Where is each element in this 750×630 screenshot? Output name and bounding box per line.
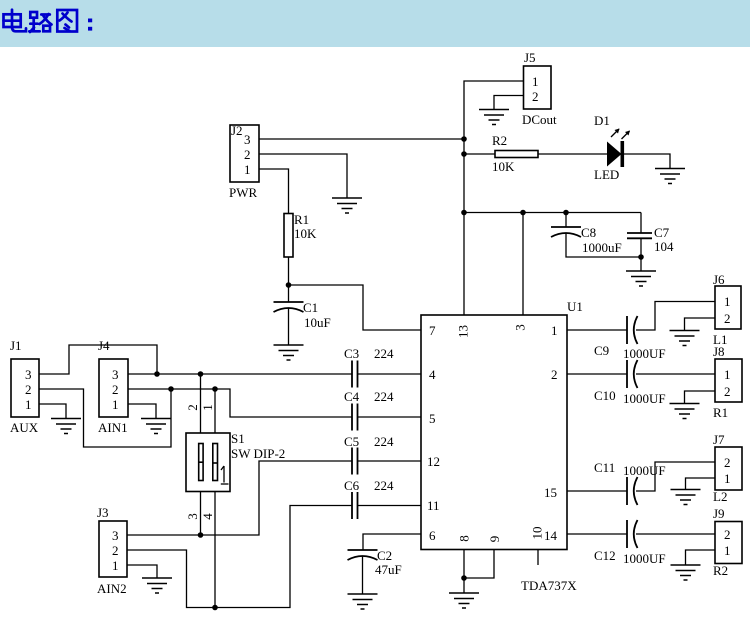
connector J6 [713,272,741,347]
svg-text:R1: R1 [713,405,728,420]
svg-text:3: 3 [244,132,251,147]
svg-text:224: 224 [374,434,394,449]
node S1.4 join [212,605,218,611]
node pin8/pin9 [461,575,467,581]
svg-text:AIN1: AIN1 [98,420,128,435]
svg-text:R1: R1 [294,212,309,227]
wire C7 to ground [640,238,642,271]
wire node to U1 pin7 [289,285,422,330]
capacitor C2 [348,548,402,577]
svg-text:J3: J3 [97,505,109,520]
svg-text:C3: C3 [344,346,359,361]
node R2 junction [461,151,467,157]
svg-text:1000UF: 1000UF [623,391,666,406]
wire U1 pin10 stub [537,550,539,566]
svg-text:1: 1 [25,397,32,412]
svg-text:3: 3 [185,513,200,520]
wire J5 pin1 down to U1 pin13 [464,81,524,315]
svg-text:TDA737X: TDA737X [521,578,577,593]
svg-text:1: 1 [200,404,215,411]
node bus left [461,210,467,216]
wire C3 to U1 pin4 [358,373,422,375]
wire U1 pin2 to C10 [567,373,627,375]
svg-text:4: 4 [200,513,215,520]
ground J6 [670,331,700,346]
svg-text:8: 8 [457,535,472,542]
node S1.3 join [198,532,204,538]
svg-text:C2: C2 [377,548,392,563]
wire AIN1 pin2 net to C4 [128,389,352,417]
svg-text:D1: D1 [594,113,610,128]
diode D1 LED [594,113,630,182]
ground C7 [626,271,656,286]
wire C8 bottom [566,233,641,257]
svg-text:2: 2 [724,455,731,470]
node C8 branch [563,210,569,216]
svg-text:1000uF: 1000uF [582,240,622,255]
svg-text:C9: C9 [594,343,609,358]
svg-text:2: 2 [724,311,731,326]
svg-text:C8: C8 [581,225,596,240]
wire U1 pin1 to C9 [567,329,627,331]
svg-text:4: 4 [429,367,436,382]
svg-text:7: 7 [429,323,436,338]
node C8/C7 junction [638,254,644,260]
capacitor C7 [627,225,674,254]
connector J7 [713,432,742,504]
svg-text:5: 5 [429,411,436,426]
ground C2 [348,594,378,609]
wire S1 pin1 stub [214,389,216,433]
wire J4 pin1 [128,404,156,419]
svg-text:2: 2 [25,382,32,397]
wire C6 to U1 pin11 [358,505,422,507]
node S1 pin2 join [198,371,204,377]
title banner [0,0,750,47]
svg-text:1: 1 [244,162,251,177]
svg-text:J9: J9 [713,506,725,521]
svg-text:13: 13 [456,325,471,338]
wire J7 pin1 to ground [686,478,716,490]
wire C4 to U1 pin5 [358,416,422,418]
svg-text:1: 1 [112,397,119,412]
svg-text:C1: C1 [303,300,318,315]
wire bus to C7 [640,213,642,234]
wire S1 pin2 stub [200,374,202,433]
ground J7 [671,490,701,505]
svg-text:9: 9 [487,536,502,543]
svg-text:15: 15 [544,485,557,500]
connector J9 [713,506,742,578]
svg-text:1000UF: 1000UF [623,346,666,361]
capacitor C1 [274,300,331,330]
svg-text:1: 1 [724,471,731,486]
node J1.2 join [168,386,174,392]
svg-text:J8: J8 [713,344,725,359]
wire U1 pin8 stub [463,550,465,594]
svg-text:R2: R2 [492,133,507,148]
capacitor C6 [344,478,394,519]
wire U1 pin14 to C12 [567,533,627,535]
svg-text:14: 14 [544,528,558,543]
svg-text:SW DIP-2: SW DIP-2 [231,446,285,461]
svg-text:AIN2: AIN2 [97,581,127,596]
wire R2 to LED [538,153,607,155]
wire C1 to ground [288,308,290,345]
capacitor C9 [594,316,666,361]
svg-text:2: 2 [724,527,731,542]
wire LED to ground [624,154,670,169]
svg-text:3: 3 [112,367,119,382]
svg-text:AUX: AUX [10,420,39,435]
capacitor C3 [344,346,394,388]
wire J2 pin1 to R1 [259,169,289,214]
svg-text:1: 1 [724,543,731,558]
wire U1 pin9 stub [464,550,494,579]
svg-text:2: 2 [724,384,731,399]
svg-text:11: 11 [427,498,440,513]
svg-text:J7: J7 [713,432,725,447]
svg-text:C10: C10 [594,388,616,403]
svg-text:C4: C4 [344,389,360,404]
node R1/C1 [286,282,292,288]
wire C9 to J6 pin1 [636,302,715,331]
ground J8 [670,404,700,419]
svg-text:S1: S1 [231,431,245,446]
wire C5 to U1 pin12 [358,460,422,462]
wire S1 pin3 stub [200,492,202,536]
wire bus to U1 pin3 [522,213,524,316]
svg-text:R2: R2 [713,563,728,578]
svg-text:1: 1 [724,367,731,382]
capacitor C12 [594,520,666,566]
svg-text:L2: L2 [713,489,727,504]
capacitor C10 [594,360,666,406]
wire J1 pin3 over to AIN1 net [39,345,157,374]
svg-text:2: 2 [244,147,251,162]
capacitor C5 [344,434,394,475]
wire J3 pin2 net bottom run to C6 [127,506,352,608]
wire to R2 [464,153,495,155]
svg-text:U1: U1 [567,299,583,314]
svg-text:224: 224 [374,346,394,361]
wire C2 to ground [362,556,364,594]
svg-text:J5: J5 [524,50,536,65]
switch S1 SW DIP-2 [186,431,285,492]
svg-text:DCout: DCout [522,112,557,127]
svg-text:3: 3 [112,528,119,543]
svg-text:47uF: 47uF [375,562,402,577]
resistor R2 [492,133,538,174]
wire J2 pin3 to node [259,138,464,140]
wire J5 pin2 to ground [494,96,524,110]
svg-text:2: 2 [532,89,539,104]
ground J2 pin2 [332,198,362,213]
wire J1 pin2 under to AIN1 pin2 net [39,389,171,447]
op-amp IC U1 TDA737X [421,299,583,593]
svg-text:LED: LED [594,167,619,182]
ground J4 [141,419,171,434]
svg-text:3: 3 [513,324,528,331]
wire U1 pin15 to C11 [567,490,627,492]
wire AIN1 pin3 net to C3 [128,373,352,375]
wire J3 pin3 net to C5 [127,461,352,535]
wire C10 to J8 pin1 [636,373,715,375]
svg-text:1000UF: 1000UF [623,551,666,566]
svg-text:2: 2 [112,382,119,397]
svg-text:1: 1 [551,323,558,338]
svg-text:2: 2 [185,404,200,411]
connector J5 [522,50,557,127]
ground J3 [142,578,172,593]
node U1 pin3 branch [520,210,526,216]
svg-text:6: 6 [429,528,436,543]
wire J6 pin2 to ground [685,318,716,331]
wire J8 pin2 to ground [685,391,716,404]
svg-text:3: 3 [25,367,32,382]
svg-text:104: 104 [654,239,674,254]
ground U1 pins 8,9 [449,593,479,608]
svg-text:10K: 10K [294,226,317,241]
ground LED [655,169,685,184]
ground J9 [671,565,701,580]
svg-text:1: 1 [532,74,539,89]
wire C11 to J7 pin2 [636,462,715,491]
svg-text:J6: J6 [713,272,725,287]
ground J5 [479,110,509,125]
connector J1 [10,338,39,435]
svg-text:C12: C12 [594,548,616,563]
node S1 pin1 join [212,386,218,392]
svg-text:C6: C6 [344,478,360,493]
ground C1 [274,345,304,360]
connector J2 [229,123,259,200]
wire J2 pin2 [259,154,347,198]
wire J9 pin1 to ground [686,550,716,565]
svg-text:C5: C5 [344,434,359,449]
wire U1 pin6 to C2 [363,534,421,550]
connector J8 [713,344,742,420]
wire J1 pin1 [39,404,66,419]
svg-text:12: 12 [427,454,440,469]
svg-text:224: 224 [374,389,394,404]
title text 电路图: (drawn glyphs) [4,10,93,32]
wire J3 pin1 [127,565,157,578]
connector J4 [98,338,128,435]
svg-text:1: 1 [724,294,731,309]
svg-text:2: 2 [551,367,558,382]
wire bus to C8 [565,213,567,228]
svg-text:1: 1 [112,558,119,573]
wire power bus [464,212,641,214]
ground J1 [51,419,81,434]
svg-text:10K: 10K [492,159,515,174]
capacitor C11 [594,460,666,505]
wire S1 pin4 stub down to bottom net [214,492,216,608]
svg-text:1000UF: 1000UF [623,463,666,478]
connector J3 [97,505,127,596]
node J1.3 join [154,371,160,377]
svg-text:PWR: PWR [229,185,258,200]
svg-text:10uF: 10uF [304,315,331,330]
wire C12 to J9 pin2 [636,533,715,535]
svg-text:J1: J1 [10,338,22,353]
svg-text:10: 10 [530,527,545,540]
svg-text:J2: J2 [231,123,243,138]
svg-text:C11: C11 [594,460,615,475]
capacitor C8 [551,225,622,255]
svg-text:224: 224 [374,478,394,493]
node J2.3 junction [461,136,467,142]
resistor R1 [284,212,317,257]
svg-text:2: 2 [112,543,119,558]
svg-text:C7: C7 [654,225,670,240]
capacitor C4 [344,389,394,431]
wire R1 bottom to C1 [288,257,290,302]
